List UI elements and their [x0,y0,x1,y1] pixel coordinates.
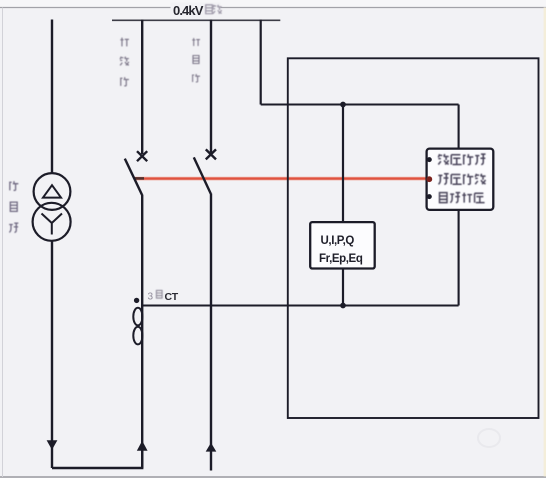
CT junction dot [134,298,139,303]
feeder 1 upper wire [141,20,143,155]
relay box U2 [427,149,494,210]
incoming supply wire (top left) [51,20,53,174]
big enclosure rectangle [288,58,539,418]
breaker QF2 blade [194,157,211,193]
bottom loop wire [52,450,142,468]
svg-text:U,I,P,Q: U,I,P,Q [321,235,355,247]
node B junction dot [340,303,346,309]
wire node A to meter box [342,105,344,223]
feeder 2 lower wire [210,194,212,471]
relay row 2 过压保护 [438,174,485,184]
bus 0.4kV [112,19,280,21]
meter box U,I,P,Q [310,222,375,268]
frame top gray line [0,7,546,9]
wire A horizontal [261,104,459,106]
relay row 1 失压保护 [438,154,485,164]
top strip [0,0,546,7]
relay pin dot 1 [427,157,432,162]
wire B horizontal (CT to relay) [142,304,458,306]
feeder 1 lower wire [141,195,143,469]
relay pin dot 3 [427,194,432,199]
relay row 3 自动投切 [440,193,485,203]
frame right cream band [544,8,546,477]
transformer T1 label 配电变 [9,181,18,232]
svg-text:0.4kV: 0.4kV [173,3,204,18]
feeder 2 upper wire [210,20,212,153]
wire transformer to bottom arrow [51,241,53,468]
svg-text:Fr,Ep,Eq: Fr,Ep,Eq [319,253,363,265]
cabinet label 进线柜 [120,38,129,86]
svg-text:CT: CT [165,291,179,303]
arrow up (feeder 1 in) [138,442,147,451]
arrow down (supply out) [47,441,56,449]
transformer T1 [33,173,71,241]
watermark smudge [478,429,500,447]
breaker QF2 X mark [206,149,216,159]
label 3只CT [148,290,179,302]
red signal line [134,176,427,180]
node A junction dot [340,102,346,108]
breaker QF1 X mark [137,151,147,161]
wire vertical up to relay box [458,105,460,306]
breaker QF1 blade [125,159,142,195]
bus drop wire to metering [260,20,262,105]
current transformer CT coils [133,308,142,345]
frame bottom gray line [0,476,546,478]
cabinet label 计量柜 [192,38,200,82]
wire meter box to node B [342,269,344,306]
relay pin dot 2 (red) [426,176,432,182]
arrow up (feeder 2 in) [206,444,215,452]
frame left gray line [2,8,4,478]
label 0.4kV母线 [171,3,222,19]
svg-text:3: 3 [148,292,154,303]
